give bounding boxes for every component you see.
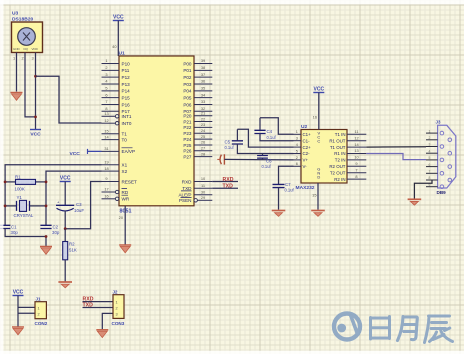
pin 12 (R1 OUT) bbox=[347, 140, 366, 142]
ground under MAX232 pin15 bbox=[311, 210, 325, 212]
svg-text:39: 39 bbox=[201, 58, 205, 63]
pin 11 (TXD) bbox=[194, 187, 212, 189]
wire: to J1 pin2 bbox=[18, 312, 35, 314]
ground under C7 bbox=[272, 210, 286, 212]
svg-text:MAX232: MAX232 bbox=[296, 185, 315, 191]
svg-text:23: 23 bbox=[201, 122, 205, 127]
wire: DB9 pin8 to ground bbox=[414, 180, 432, 199]
wire: TXD to J2 pin2 bbox=[83, 307, 114, 309]
ground under R2 bbox=[58, 281, 72, 283]
pin 14 (T0) bbox=[102, 139, 120, 141]
svg-text:4: 4 bbox=[296, 143, 298, 147]
pin 9 (R2 OUT) bbox=[347, 165, 366, 167]
svg-text:P04: P04 bbox=[183, 89, 192, 94]
pin 5 (C2-) bbox=[294, 153, 302, 155]
svg-text:C4: C4 bbox=[267, 129, 273, 134]
pin 9 bbox=[426, 186, 438, 188]
svg-text:R1 IN: R1 IN bbox=[334, 151, 345, 156]
svg-text:2: 2 bbox=[116, 307, 118, 311]
svg-text:RD: RD bbox=[122, 190, 129, 195]
svg-text:1: 1 bbox=[38, 307, 40, 311]
wire: reset node to RESET pin bbox=[65, 182, 101, 229]
svg-text:11: 11 bbox=[354, 129, 358, 134]
svg-text:9: 9 bbox=[105, 176, 107, 181]
pin 24 (P23) bbox=[194, 132, 212, 134]
pin 39 (P00) bbox=[194, 63, 212, 65]
svg-text:P05: P05 bbox=[183, 95, 192, 100]
pin 6 (P15) bbox=[102, 97, 120, 99]
wire: R1IN to DB9 (jog) bbox=[366, 154, 426, 160]
ground under sensor pin1 bbox=[11, 92, 23, 94]
svg-text:P06: P06 bbox=[183, 102, 192, 107]
svg-text:R1: R1 bbox=[15, 175, 21, 180]
svg-text:100K: 100K bbox=[15, 187, 25, 192]
svg-text:P23: P23 bbox=[183, 131, 192, 136]
DB9 connector body bbox=[438, 125, 456, 188]
capacitor C7 0.1uf bbox=[279, 166, 294, 184]
svg-text:15: 15 bbox=[104, 128, 108, 133]
svg-text:21: 21 bbox=[201, 110, 205, 115]
svg-text:30p: 30p bbox=[52, 230, 60, 235]
svg-text:3: 3 bbox=[429, 143, 431, 147]
pin 8 (P17) bbox=[102, 110, 120, 112]
svg-text:7: 7 bbox=[355, 167, 357, 172]
pin 33 (P06) bbox=[194, 103, 212, 105]
svg-text:2: 2 bbox=[38, 312, 40, 316]
resistor R1 100K bbox=[5, 181, 15, 183]
pin 1 bbox=[426, 132, 438, 134]
svg-text:15: 15 bbox=[312, 193, 316, 198]
svg-text:6: 6 bbox=[429, 163, 431, 167]
junction node bbox=[34, 75, 37, 78]
svg-text:29: 29 bbox=[201, 195, 205, 200]
junction node bbox=[34, 116, 37, 119]
pin 2 (V+) bbox=[294, 159, 302, 161]
svg-text:VDD: VDD bbox=[32, 47, 39, 51]
svg-text:2: 2 bbox=[22, 56, 24, 61]
ground under J2 bbox=[96, 329, 108, 331]
pin 32 (P07) bbox=[194, 110, 212, 112]
svg-text:C2+: C2+ bbox=[303, 145, 312, 150]
svg-text:25: 25 bbox=[201, 134, 205, 139]
pin 28 (P27) bbox=[194, 156, 212, 158]
pin 37 (P02) bbox=[194, 76, 212, 78]
svg-text:EA/VP: EA/VP bbox=[122, 149, 136, 154]
wire: J2 pin3 to ground bbox=[102, 313, 113, 329]
ground under crystal caps bbox=[40, 246, 52, 248]
pin 7 (P16) bbox=[102, 103, 120, 105]
capacitor C1 30p bbox=[0, 225, 10, 228]
watermark logo bbox=[334, 314, 453, 343]
pin 6 bbox=[426, 166, 438, 168]
pin 38 (P01) bbox=[194, 69, 212, 71]
svg-text:WR: WR bbox=[122, 197, 130, 202]
svg-text:VCC: VCC bbox=[30, 132, 41, 138]
pin 12 (INT0) bbox=[102, 122, 116, 124]
MCU U1 body bbox=[119, 56, 194, 206]
pin 35 (P04) bbox=[194, 90, 212, 92]
svg-text:CON2: CON2 bbox=[35, 321, 48, 326]
svg-text:35: 35 bbox=[201, 86, 205, 91]
svg-text:T1 IN: T1 IN bbox=[335, 132, 346, 137]
resistor R2 51K bbox=[64, 229, 66, 242]
svg-text:INT0: INT0 bbox=[122, 121, 132, 126]
pin 4 (P13) bbox=[102, 83, 120, 85]
svg-text:17: 17 bbox=[104, 187, 108, 192]
pin 27 (P26) bbox=[194, 150, 212, 152]
pin 13 (INT1) bbox=[102, 115, 116, 117]
wire: caps to ground rail bbox=[5, 229, 46, 247]
capacitor C3 10uF electrolytic bbox=[64, 182, 66, 206]
pin 6 (V-) bbox=[294, 165, 302, 167]
pin 15 (T1) bbox=[102, 133, 120, 135]
svg-text:X1: X1 bbox=[122, 163, 128, 168]
svg-text:7: 7 bbox=[105, 99, 107, 104]
pin 23 (P22) bbox=[194, 126, 212, 128]
sensor U3 body bbox=[12, 22, 43, 53]
ground under J1 bbox=[12, 326, 24, 328]
pin 25 (P24) bbox=[194, 138, 212, 140]
pin 22 (P21) bbox=[194, 121, 212, 123]
svg-text:P13: P13 bbox=[122, 82, 131, 87]
svg-text:0.1uf: 0.1uf bbox=[267, 135, 277, 140]
svg-text:DQ: DQ bbox=[24, 47, 29, 51]
svg-text:P03: P03 bbox=[183, 82, 192, 87]
svg-text:VCC: VCC bbox=[70, 151, 81, 157]
svg-text:J3: J3 bbox=[436, 119, 441, 124]
svg-text:C: C bbox=[317, 138, 320, 143]
svg-text:R2 IN: R2 IN bbox=[334, 177, 345, 182]
svg-text:VCC: VCC bbox=[314, 87, 325, 93]
svg-text:J2: J2 bbox=[113, 290, 118, 295]
ground under DB9 bbox=[408, 198, 422, 200]
svg-text:TXD: TXD bbox=[182, 186, 192, 191]
pin 2 (P11) bbox=[102, 69, 120, 71]
svg-text:ALE/P: ALE/P bbox=[178, 193, 191, 198]
svg-text:28: 28 bbox=[201, 151, 205, 156]
svg-text:P12: P12 bbox=[122, 75, 131, 80]
svg-text:16: 16 bbox=[104, 194, 108, 199]
wire: X1 net bbox=[5, 165, 101, 225]
svg-text:P21: P21 bbox=[183, 119, 192, 124]
MAX232 U2 body bbox=[301, 130, 347, 184]
svg-text:T0: T0 bbox=[122, 137, 128, 142]
svg-text:1: 1 bbox=[13, 56, 15, 61]
svg-text:30p: 30p bbox=[11, 230, 19, 235]
svg-text:33: 33 bbox=[201, 99, 205, 104]
svg-text:DB9: DB9 bbox=[437, 190, 447, 195]
svg-text:27: 27 bbox=[201, 146, 205, 151]
svg-text:P00: P00 bbox=[183, 61, 192, 66]
svg-text:8: 8 bbox=[355, 174, 357, 179]
svg-text:5: 5 bbox=[296, 149, 298, 153]
svg-text:P14: P14 bbox=[122, 89, 131, 94]
svg-text:P11: P11 bbox=[122, 68, 130, 73]
svg-text:P15: P15 bbox=[122, 95, 131, 100]
wire: sensor pin2 down bbox=[25, 53, 36, 117]
svg-text:4: 4 bbox=[429, 149, 431, 153]
pin 9 (RESET) bbox=[102, 181, 120, 183]
svg-text:P22: P22 bbox=[183, 125, 192, 130]
pin 10 (T2 IN) bbox=[347, 159, 366, 161]
svg-text:T2 IN: T2 IN bbox=[335, 158, 346, 163]
pin 3 (C1-) bbox=[294, 140, 302, 142]
svg-text:T1 OUT: T1 OUT bbox=[330, 145, 346, 150]
svg-text:CRYSTAL: CRYSTAL bbox=[14, 213, 34, 218]
svg-text:Y1: Y1 bbox=[17, 195, 23, 200]
svg-text:5: 5 bbox=[429, 156, 431, 160]
svg-text:6: 6 bbox=[105, 92, 107, 97]
svg-text:38: 38 bbox=[201, 65, 205, 70]
svg-text:16: 16 bbox=[313, 115, 317, 120]
svg-text:TXD: TXD bbox=[223, 184, 234, 190]
capacitor C2 30p bbox=[40, 225, 51, 228]
pin 26 (P25) bbox=[194, 144, 212, 146]
wire: sensor pin3 down to VCC port bbox=[35, 53, 37, 130]
capacitor C5 0.1uf bbox=[232, 141, 243, 144]
wire: MCU pin20 to ground bbox=[124, 206, 126, 245]
pin 1 (C1+) bbox=[294, 133, 302, 135]
wire: C3 to reset node bbox=[64, 211, 66, 229]
svg-text:10uF: 10uF bbox=[74, 208, 84, 213]
svg-text:0.1uf: 0.1uf bbox=[225, 145, 235, 150]
wire: X2 net bbox=[46, 171, 102, 225]
wire: VCC to pin 40 bbox=[117, 21, 119, 57]
pin 5 (P14) bbox=[102, 90, 120, 92]
svg-text:13: 13 bbox=[104, 111, 108, 116]
pin 19 (X1) bbox=[102, 164, 120, 166]
pin 30 (ALE/P) bbox=[194, 194, 212, 196]
svg-text:C1-: C1- bbox=[303, 138, 311, 143]
svg-text:C1+: C1+ bbox=[303, 132, 312, 137]
svg-text:P25: P25 bbox=[183, 143, 192, 148]
svg-text:37: 37 bbox=[201, 72, 205, 77]
svg-text:P24: P24 bbox=[183, 137, 192, 142]
svg-text:T1: T1 bbox=[122, 132, 128, 137]
svg-text:CON3: CON3 bbox=[112, 321, 125, 326]
pin 34 (P05) bbox=[194, 97, 212, 99]
svg-text:6: 6 bbox=[296, 162, 298, 166]
svg-text:C5: C5 bbox=[225, 139, 231, 144]
svg-text:U3: U3 bbox=[12, 11, 19, 17]
svg-text:13: 13 bbox=[354, 148, 358, 153]
svg-text:9: 9 bbox=[355, 161, 357, 166]
svg-text:7: 7 bbox=[429, 170, 431, 174]
svg-text:1: 1 bbox=[105, 58, 107, 63]
svg-text:R2 OUT: R2 OUT bbox=[329, 164, 345, 169]
svg-text:51K: 51K bbox=[69, 248, 77, 253]
svg-text:X2: X2 bbox=[122, 169, 128, 174]
svg-text:2: 2 bbox=[296, 156, 298, 160]
svg-text:GND: GND bbox=[13, 47, 21, 51]
svg-text:P10: P10 bbox=[122, 61, 131, 66]
pin 36 (P03) bbox=[194, 83, 212, 85]
pin 16 (WR) bbox=[102, 198, 116, 200]
svg-text:C6: C6 bbox=[266, 158, 272, 163]
pin 31 (EA/VP) bbox=[102, 150, 120, 152]
svg-text:P02: P02 bbox=[183, 75, 192, 80]
wire: VCC to pin16 bbox=[318, 93, 320, 130]
svg-text:2: 2 bbox=[429, 136, 431, 140]
wire: J1 rail bbox=[17, 296, 19, 327]
crystal Y1 bbox=[5, 205, 16, 207]
svg-text:INT1: INT1 bbox=[122, 114, 132, 119]
pin 17 (RD) bbox=[102, 191, 116, 193]
svg-text:C2-: C2- bbox=[303, 151, 311, 156]
wire: T1OUT to DB9 bbox=[366, 146, 426, 148]
pin 3 (P12) bbox=[102, 76, 120, 78]
svg-text:2: 2 bbox=[105, 65, 107, 70]
pin 7 bbox=[426, 172, 438, 174]
svg-text:P20: P20 bbox=[183, 114, 192, 119]
svg-text:J1: J1 bbox=[36, 297, 41, 302]
pin 14 (T1 OUT) bbox=[347, 146, 366, 148]
capacitor C6 0.1uf bbox=[257, 156, 268, 159]
watermark char RI bbox=[371, 317, 390, 340]
pin 21 (P20) bbox=[194, 115, 212, 117]
net label RXD bbox=[212, 181, 238, 183]
svg-text:12: 12 bbox=[354, 135, 358, 140]
wire: pin15 to ground bbox=[317, 183, 319, 210]
pin 11 (T1 IN) bbox=[347, 133, 366, 135]
svg-text:C3: C3 bbox=[76, 202, 82, 207]
wire: to J1 pin1 bbox=[18, 306, 35, 308]
pin 8 (R2 IN) bbox=[347, 178, 366, 180]
svg-text:0.1uf: 0.1uf bbox=[262, 164, 272, 169]
svg-text:P27: P27 bbox=[183, 154, 192, 159]
wire: sensor pin1 to ground bbox=[16, 53, 18, 92]
pin 1 (P10) bbox=[102, 63, 120, 65]
pin 7 (T2 OUT) bbox=[347, 172, 366, 174]
svg-text:8: 8 bbox=[429, 176, 431, 180]
watermark char CHEN bbox=[425, 316, 453, 343]
svg-text:5: 5 bbox=[105, 86, 107, 91]
pin 4 bbox=[426, 152, 438, 154]
svg-text:19: 19 bbox=[104, 159, 108, 164]
pin 18 (X2) bbox=[102, 170, 120, 172]
svg-text:12: 12 bbox=[104, 118, 108, 123]
svg-text:18: 18 bbox=[104, 166, 108, 171]
svg-text:11: 11 bbox=[201, 183, 205, 188]
wire: R2 to ground bbox=[64, 260, 66, 282]
svg-text:R1 OUT: R1 OUT bbox=[329, 138, 345, 143]
svg-text:C7: C7 bbox=[285, 182, 291, 187]
capacitor C8 (polarized, to V+) bbox=[220, 154, 224, 164]
svg-text:0.1uf: 0.1uf bbox=[285, 188, 295, 193]
svg-text:31: 31 bbox=[104, 146, 108, 151]
wire: DQ branch to MCU INT0 bbox=[36, 76, 102, 123]
watermark char YUE bbox=[398, 317, 418, 341]
svg-text:22: 22 bbox=[201, 116, 205, 121]
svg-text:T2 OUT: T2 OUT bbox=[330, 170, 346, 175]
svg-text:1: 1 bbox=[296, 130, 298, 134]
svg-text:P26: P26 bbox=[183, 149, 192, 154]
svg-text:1: 1 bbox=[429, 129, 431, 133]
svg-text:D: D bbox=[317, 174, 320, 179]
pin 5 bbox=[426, 159, 438, 161]
pin 3 bbox=[426, 146, 438, 148]
svg-text:3: 3 bbox=[32, 56, 34, 61]
pin 4 (C2+) bbox=[294, 146, 302, 148]
svg-text:1: 1 bbox=[116, 301, 118, 305]
wire: RXD to J2 pin1 bbox=[83, 301, 114, 303]
svg-text:RESET: RESET bbox=[122, 179, 138, 184]
ground under MCU pin 20 bbox=[119, 244, 131, 246]
power port VCC (down) bbox=[30, 129, 41, 131]
svg-text:3: 3 bbox=[296, 137, 298, 141]
capacitor C4 0.1uf bbox=[254, 130, 265, 133]
svg-text:R2: R2 bbox=[69, 242, 75, 247]
svg-text:26: 26 bbox=[201, 140, 205, 145]
svg-text:P01: P01 bbox=[183, 68, 192, 73]
pin 8 bbox=[426, 179, 438, 181]
svg-text:C2: C2 bbox=[53, 225, 59, 230]
pin 29 (PSEN) bbox=[197, 199, 212, 201]
net label TXD bbox=[212, 187, 238, 189]
pin 13 (R1 IN) bbox=[347, 153, 366, 155]
svg-text:P16: P16 bbox=[122, 102, 131, 107]
svg-text:PSEN: PSEN bbox=[179, 198, 192, 203]
svg-text:V+: V+ bbox=[303, 158, 309, 163]
svg-text:C1: C1 bbox=[11, 225, 17, 230]
pin 2 bbox=[426, 139, 438, 141]
svg-text:3: 3 bbox=[116, 312, 118, 316]
svg-text:RXD: RXD bbox=[223, 177, 234, 183]
pin 10 (RXD) bbox=[194, 181, 212, 183]
svg-text:V-: V- bbox=[303, 164, 308, 169]
svg-text:3: 3 bbox=[105, 72, 107, 77]
svg-text:36: 36 bbox=[201, 79, 205, 84]
svg-text:RXD: RXD bbox=[182, 179, 192, 184]
